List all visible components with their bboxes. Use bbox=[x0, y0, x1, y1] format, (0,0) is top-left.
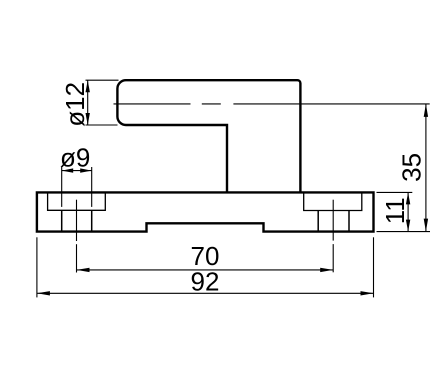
right counterbore bbox=[304, 192, 362, 210]
dim o12 arrow bottom bbox=[86, 113, 90, 125]
svg-text:11: 11 bbox=[380, 197, 410, 224]
right hole centerline bbox=[332, 200, 334, 273]
right hole wall right bbox=[348, 211, 350, 232]
dim 35 arrow top bbox=[424, 104, 428, 117]
dim o12 line bbox=[87, 80, 89, 125]
dim o9 arrow left bbox=[62, 168, 73, 172]
dim 11 extension line top bbox=[377, 191, 413, 193]
dim 70 line bbox=[77, 269, 334, 271]
dim 11 line bbox=[407, 192, 409, 231]
dim 92 line bbox=[37, 292, 374, 294]
svg-text:92: 92 bbox=[191, 266, 220, 296]
dim 70 arrow right bbox=[320, 268, 333, 272]
dim o9 extension line right bbox=[91, 167, 93, 207]
dim 92 arrow left bbox=[37, 291, 50, 295]
base plate outline bbox=[37, 192, 374, 231]
dim 92 arrow right bbox=[361, 291, 374, 295]
dim 92 extension line right bbox=[373, 237, 375, 297]
left hole wall left bbox=[61, 210, 63, 231]
left hole centerline bbox=[76, 200, 78, 273]
dim 35 line bbox=[425, 104, 427, 232]
dim 70 arrow left bbox=[77, 268, 90, 272]
right hole wall left bbox=[317, 211, 319, 232]
dim 35 arrow bottom bbox=[424, 219, 428, 232]
left hole wall right bbox=[91, 210, 93, 231]
dim o12 extension line bottom bbox=[86, 124, 118, 126]
dim 35 extension line bottom bbox=[377, 231, 431, 233]
dim o12 extension line top bbox=[86, 79, 119, 81]
cylinder axis centerline bbox=[114, 103, 430, 105]
svg-text:ø9: ø9 bbox=[60, 142, 90, 172]
dim 92 extension line left bbox=[36, 237, 38, 297]
dim o9 line bbox=[62, 170, 92, 172]
dim o9 arrow right bbox=[80, 168, 92, 172]
dim 11 arrow top bbox=[406, 192, 410, 204]
dim 11 arrow bottom bbox=[406, 220, 410, 232]
svg-text:ø12: ø12 bbox=[60, 82, 90, 127]
dim o9 extension line left bbox=[61, 167, 63, 207]
svg-text:35: 35 bbox=[396, 153, 426, 182]
left counterbore bbox=[48, 192, 106, 210]
dim o12 arrow top bbox=[86, 80, 90, 92]
boss arm and cylinder outline bbox=[117, 80, 300, 192]
